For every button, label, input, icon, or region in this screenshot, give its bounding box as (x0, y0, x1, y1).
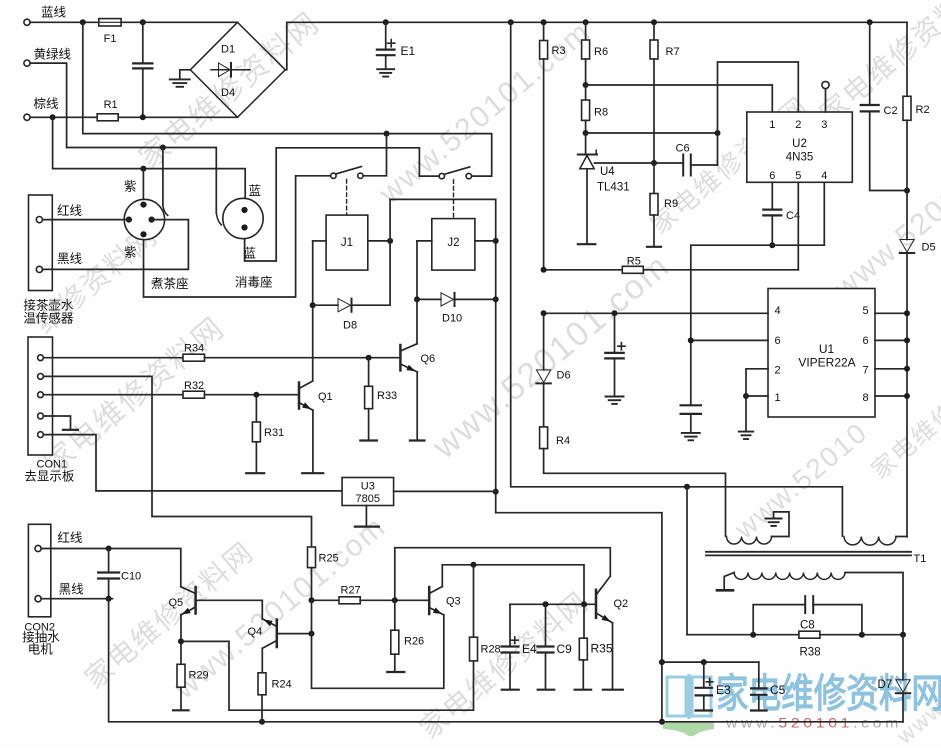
switch contact S2 (439, 173, 444, 178)
svg-text:7: 7 (862, 365, 868, 377)
wire R34 to Q6 base (205, 357, 400, 359)
resistor R34 (183, 354, 205, 361)
relay J2 (432, 219, 475, 271)
svg-text:Q3: Q3 (446, 596, 461, 608)
wire to 煮茶座 top pin (142, 169, 144, 205)
transformer T1 primary winding (844, 537, 896, 546)
junction R25/R27 (309, 597, 315, 603)
wire earth line to socket tails (30, 63, 216, 213)
svg-text:4: 4 (821, 170, 827, 182)
shunt regulator U4 TL431 (585, 133, 587, 155)
junction R3 (541, 19, 547, 25)
svg-text:红线: 红线 (57, 530, 83, 545)
svg-text:R29: R29 (189, 670, 209, 682)
junction R8/C6 line (583, 130, 589, 136)
wire Q2 base line (510, 603, 595, 605)
svg-text:R26: R26 (404, 636, 424, 648)
capacitor E1 (bulk electrolytic) (385, 22, 387, 49)
junction R6 (583, 19, 589, 25)
svg-text:TL431: TL431 (597, 182, 630, 194)
wire N to R1 (30, 116, 97, 118)
wire ref node to C6 right (586, 132, 718, 134)
svg-text:D8: D8 (343, 320, 357, 332)
terminal 黄绿线 (earth) (24, 60, 30, 66)
wire R32 to Q1 base (205, 394, 298, 396)
wire U1 pin2 to pin1 (746, 369, 768, 396)
wire J1 left lead (313, 240, 326, 242)
diode D6 (543, 313, 545, 370)
wire U1 pin6 line (691, 339, 768, 341)
svg-text:E1: E1 (401, 44, 416, 58)
svg-text:C5: C5 (770, 683, 786, 697)
svg-text:J2: J2 (447, 237, 459, 249)
junction drain pin8 (904, 393, 910, 399)
svg-text:C6: C6 (676, 143, 690, 155)
U2 pin3 open terminal (825, 89, 827, 112)
junction C6 right / U2 pin2 path (715, 130, 721, 136)
transformer core (706, 551, 911, 553)
svg-text:温传感器: 温传感器 (23, 311, 74, 326)
wire HV+ to primary (511, 22, 843, 536)
wire J2 coil low side (416, 241, 418, 344)
svg-text:R6: R6 (594, 46, 608, 58)
wire U2 pin2 loop (718, 62, 799, 165)
svg-text:8: 8 (862, 392, 868, 404)
wire Q2 collector line (395, 548, 611, 601)
junction R24 bottom (259, 719, 265, 725)
connector 接茶壶水温传感器 (29, 195, 53, 291)
wire secondary right to rectifier (845, 573, 903, 635)
wire R8 to TL431 ref node (585, 120, 587, 133)
capacitor C8 (753, 605, 805, 635)
resistor R7 (653, 22, 655, 40)
capacitor C5 (758, 662, 760, 688)
ground R26 (394, 654, 396, 671)
resistor R4 (543, 383, 545, 427)
junction E1 (383, 19, 389, 25)
svg-text:蓝: 蓝 (244, 247, 257, 261)
resistor R24 (258, 673, 266, 695)
diode D10 flyback (417, 298, 441, 300)
junction U3 input (493, 489, 499, 495)
fuse F1 (99, 19, 121, 26)
wire U1 pin1 (746, 395, 768, 397)
wire CON1 pin5 to U3 (43, 435, 342, 491)
svg-text:蓝: 蓝 (249, 184, 262, 198)
junction X-cap bottom (140, 114, 146, 120)
svg-text:D10: D10 (442, 313, 462, 325)
svg-text:黑线: 黑线 (59, 583, 85, 597)
wire secondary left to ground bar (724, 573, 734, 590)
resistor R29 (180, 641, 182, 664)
junction E3 top (701, 659, 707, 665)
svg-text:R4: R4 (556, 435, 570, 447)
svg-text:R27: R27 (341, 585, 361, 597)
wire U2 pin4 line (691, 182, 824, 245)
transistor Q6 (399, 345, 402, 370)
svg-text:5: 5 (862, 305, 868, 317)
svg-text:去显示板: 去显示板 (24, 470, 75, 484)
ground aux winding (766, 518, 782, 520)
wire S2 left to 消毒座 bottom pin (245, 148, 440, 261)
resistor R1 (97, 114, 118, 121)
junction N branch (50, 114, 56, 120)
svg-text:接茶壶水: 接茶壶水 (23, 298, 74, 313)
transformer T1 aux winding (727, 537, 772, 545)
junction C10 bottom (106, 596, 112, 602)
junction drain pin5 (904, 310, 910, 316)
svg-text:R7: R7 (666, 46, 680, 58)
ground at bridge AC- (180, 70, 191, 79)
junction C9 top (543, 601, 549, 607)
transistor Q4 (276, 620, 279, 648)
junction C8 left (750, 632, 756, 638)
regulator U3 7805 (342, 478, 394, 506)
junction J1 right (387, 238, 393, 244)
svg-text:电机: 电机 (28, 643, 54, 657)
svg-text:Q2: Q2 (614, 598, 629, 610)
wire aux winding to ground hook (772, 512, 790, 537)
dashed link S2-J2 (453, 180, 455, 218)
svg-text:E4: E4 (522, 642, 537, 656)
wire snubber feed (686, 487, 688, 635)
svg-text:R24: R24 (272, 679, 292, 691)
wire Q5 emitter node (180, 615, 182, 642)
svg-text:C10: C10 (121, 571, 141, 583)
svg-text:R31: R31 (264, 427, 284, 439)
transformer T1 secondary winding (734, 573, 845, 580)
wire R6 to junction (585, 59, 587, 85)
svg-text:4N35: 4N35 (786, 152, 814, 164)
svg-text:C9: C9 (557, 642, 573, 656)
logo green swoosh (663, 722, 714, 736)
junction drain pin6 (904, 337, 910, 343)
svg-text:J1: J1 (341, 237, 353, 249)
junction earth tail to 煮茶座 (160, 145, 166, 151)
junction R26/Q3 base (392, 597, 398, 603)
svg-text:黑线: 黑线 (57, 252, 83, 266)
svg-text:紫: 紫 (124, 246, 137, 260)
resistor R28 (473, 565, 475, 637)
switch contact S1 (331, 173, 336, 178)
ground R9 (653, 215, 655, 246)
wire switch1 right riser (363, 134, 387, 176)
svg-text:D4: D4 (221, 87, 235, 99)
capacitor C2 (869, 22, 871, 104)
junction Q5 emitter (178, 638, 184, 644)
resistor R6 (585, 22, 587, 40)
wire primary to drain (896, 536, 907, 538)
wire N to socket top pins (53, 117, 246, 210)
relay J1 (326, 215, 368, 270)
ground R33 (368, 409, 370, 440)
terminal 蓝线 (L) (24, 19, 30, 25)
svg-text:D7: D7 (878, 679, 893, 691)
svg-text:T1: T1 (914, 553, 927, 565)
wire U1 pin6 right (875, 339, 907, 341)
wire DC+ top rail (287, 21, 907, 23)
svg-text:5: 5 (795, 170, 801, 182)
transistor Q2 (595, 590, 598, 618)
resistor R35 (583, 604, 585, 638)
wire C6 right plate lead (691, 164, 718, 166)
wire CON1 pin3 to R32 (43, 394, 183, 396)
svg-text:U3: U3 (361, 481, 375, 493)
svg-text:蓝线: 蓝线 (41, 6, 67, 20)
wire R25 to base node (311, 568, 313, 601)
wire 红线 to socket left pin (43, 219, 129, 221)
svg-text:U4: U4 (600, 166, 615, 178)
junction R28 top (471, 562, 477, 568)
diode D7 (902, 635, 904, 680)
socket 煮茶座 (124, 199, 164, 239)
junction switch1 feed (384, 131, 390, 137)
curved tail at 消毒座 (216, 213, 221, 225)
junction HV primary feed (508, 19, 514, 25)
junction L-riser (80, 19, 86, 25)
junction C4 bottom (769, 242, 775, 248)
transistor Q1 (298, 383, 301, 409)
junction drain pin7 (904, 366, 910, 372)
svg-text:E3: E3 (716, 683, 731, 697)
svg-text:黄绿线: 黄绿线 (34, 47, 72, 62)
socket 消毒座 (223, 198, 263, 238)
svg-text:Q5: Q5 (169, 597, 184, 609)
svg-text:R1: R1 (104, 99, 118, 111)
resistor R5 (544, 269, 623, 271)
wire CON1 pin2 to R25 (43, 376, 311, 547)
svg-text:4: 4 (774, 305, 780, 317)
svg-text:2: 2 (774, 365, 780, 377)
wire U1 pin4 feedback line (544, 312, 768, 314)
svg-text:R33: R33 (377, 390, 397, 402)
svg-text:F1: F1 (104, 33, 117, 45)
transistor Q5 (194, 587, 197, 614)
junction C2 (867, 19, 873, 25)
wire Q5 emitter to R28 bottom (181, 641, 474, 710)
junction D8 anode (310, 302, 316, 308)
svg-text:Q4: Q4 (248, 626, 263, 638)
ground R31 (255, 442, 257, 473)
connector CON2 接抽水电机 (28, 524, 50, 617)
junction R6/R8/opto pin1 (583, 82, 589, 88)
svg-text:紫: 紫 (124, 180, 137, 194)
svg-text:C2: C2 (884, 105, 898, 117)
svg-text:R5: R5 (627, 256, 641, 268)
wire J1 right lead (368, 240, 390, 242)
ground U3 (365, 506, 367, 526)
resistor R27 (312, 599, 340, 601)
junction R35 top (581, 601, 587, 607)
svg-text:2: 2 (795, 119, 801, 131)
bridge rectifier D1-D4 (190, 22, 285, 117)
wire U2 pin5 to R5 line (797, 182, 799, 269)
junction C10 top (106, 546, 112, 552)
resistor R25 (308, 547, 316, 568)
junction +12V rail (659, 719, 665, 725)
capacitor C9 (545, 604, 547, 645)
svg-text:C8: C8 (800, 620, 815, 632)
svg-text:R25: R25 (319, 553, 339, 565)
wire Q2 emitter ground (612, 623, 614, 689)
wire L to fuse (30, 21, 99, 23)
svg-text:煮茶座: 煮茶座 (151, 276, 189, 291)
wire R4 to aux winding (544, 449, 726, 536)
wire to +12V rail / bottom bus (109, 599, 903, 722)
wire fuse to bridge top (121, 21, 237, 23)
ground R29 (180, 687, 182, 709)
junction R33 top (366, 355, 372, 361)
wire J1 coil low side (312, 241, 314, 381)
wire J2 right lead (475, 240, 496, 242)
junction D10 cathode (493, 296, 499, 302)
wire Q5 base to Q4 (197, 600, 262, 619)
wire R1 to bridge bottom (118, 116, 237, 118)
diode D8 flyback (313, 304, 338, 306)
capacitor E3 (703, 662, 705, 687)
junction pin1/pin2 (743, 393, 749, 399)
logo book icon (667, 674, 711, 719)
junction clamp to D5 (904, 188, 910, 194)
svg-text:D1: D1 (221, 44, 235, 56)
resistor R3 (543, 22, 545, 40)
capacitor C10 (108, 549, 110, 572)
transistor Q3 (428, 587, 431, 614)
wire junction to U2 pin1 (586, 85, 773, 112)
ground U1 pins 1-2 (745, 396, 747, 431)
svg-text:Q1: Q1 (318, 391, 333, 403)
resistor R31 (255, 395, 257, 422)
svg-text:R38: R38 (800, 647, 821, 659)
svg-text:VIPER22A: VIPER22A (798, 356, 855, 370)
resistor R9 (653, 163, 655, 194)
svg-text:6: 6 (769, 170, 775, 182)
svg-text:R3: R3 (552, 45, 566, 57)
svg-text:Q6: Q6 (421, 353, 436, 365)
svg-text:1: 1 (774, 392, 780, 404)
capacitor Vdd electrolytic (614, 313, 616, 352)
junction R5 left (541, 267, 547, 273)
svg-text:7805: 7805 (356, 493, 380, 505)
wire Q4 collector to R24 (261, 648, 263, 673)
wire U1 pin8 (875, 395, 907, 397)
capacitor E4 (509, 604, 511, 645)
wire R3 down to R5 node (543, 59, 545, 270)
junction snubber branch (684, 484, 690, 490)
junction J2 right (493, 238, 499, 244)
junction X-cap top (140, 19, 146, 25)
resistor R38 (687, 634, 799, 636)
diode D5 (906, 191, 908, 240)
junction R7/R9/C6/U4 (651, 160, 657, 166)
svg-text:U2: U2 (792, 138, 807, 150)
svg-text:消毒座: 消毒座 (235, 275, 273, 290)
svg-text:R28: R28 (481, 644, 501, 656)
svg-text:6: 6 (774, 335, 780, 347)
junction R7 (651, 19, 657, 25)
junction pin4 line left (541, 310, 547, 316)
svg-text:R8: R8 (594, 107, 608, 119)
junction pin6 line (688, 337, 694, 343)
wire base node down to Q3 emitter loop (312, 600, 444, 688)
wire U1 pin5 (875, 312, 907, 314)
junction E3 line (659, 659, 665, 665)
svg-text:R9: R9 (664, 198, 678, 210)
svg-text:U1: U1 (819, 342, 835, 356)
wire live rail to switches (83, 22, 492, 176)
resistor R26 (394, 600, 396, 630)
resistor R2 (906, 22, 908, 96)
wire earth tail to 煮茶座 (162, 148, 164, 206)
wire J2 left lead (417, 240, 432, 242)
wire CON2 红线 rail (41, 549, 181, 587)
resistor R8 (585, 85, 587, 100)
junction C8 right (859, 632, 865, 638)
svg-text:R2: R2 (916, 104, 930, 116)
capacitor C4 on U2 pin6 (771, 182, 773, 209)
svg-text:www.520101.com: www.520101.com (725, 716, 902, 731)
junction D10 anode (414, 296, 420, 302)
wire CON1 pin1 to R34 (43, 357, 183, 359)
junction Q4 base node (309, 631, 315, 637)
dashed link S1-J1 (346, 180, 348, 215)
svg-text:红线: 红线 (57, 203, 83, 218)
capacitor X (mains filter) (142, 22, 144, 62)
wire U3 output to +12 node (394, 490, 496, 492)
wire R7 down to ref line (653, 59, 655, 163)
svg-text:3: 3 (821, 119, 827, 131)
svg-text:6: 6 (862, 335, 868, 347)
wire U1 pin7 (875, 368, 907, 370)
terminal 棕线 (N) (24, 114, 30, 120)
svg-text:D6: D6 (557, 370, 571, 382)
svg-text:D5: D5 (922, 242, 936, 254)
junction D7 top (900, 632, 906, 638)
wire output cap line (661, 661, 759, 663)
junction 煮茶座 top pin branch (140, 166, 146, 172)
svg-text:R32: R32 (184, 380, 204, 392)
wire D5 to drain rail (906, 254, 908, 537)
svg-text:R34: R34 (184, 343, 204, 355)
svg-text:1: 1 (769, 119, 775, 131)
wire R24 to bus (261, 695, 263, 722)
optocoupler U2 4N35 (747, 112, 853, 182)
wire S1 left to 煮茶座 bottom pin (144, 176, 331, 297)
controller U1 VIPER22A (768, 289, 875, 418)
junction R31 top (253, 392, 259, 398)
wire bridge DC+ riser (285, 22, 287, 70)
wire 黑线 to socket right pin (43, 220, 189, 270)
ground CON1 pin4 (43, 416, 70, 429)
wire ref line (595, 162, 684, 164)
svg-text:棕线: 棕线 (34, 96, 60, 111)
resistor R32 (183, 391, 205, 398)
junction Vdd cap (612, 310, 618, 316)
wire Q3 collector rail (442, 565, 584, 605)
capacitor C6 (682, 155, 684, 176)
wire CON2 黑线 (41, 598, 112, 600)
resistor R33 (368, 358, 370, 387)
wire relay +12V line (390, 199, 662, 721)
capacitor on U1 pin6 (690, 245, 692, 404)
svg-text:R35: R35 (591, 642, 613, 656)
wire Q4 base (278, 633, 312, 635)
connector CON1 去显示板 (28, 337, 53, 455)
